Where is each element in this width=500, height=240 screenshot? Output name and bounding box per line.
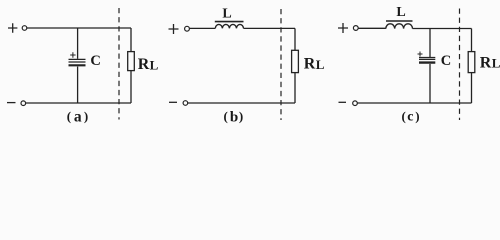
svg-text:): ) [415, 109, 419, 124]
svg-text:b: b [230, 110, 238, 126]
svg-text:C: C [441, 53, 451, 69]
svg-text:(: ( [224, 109, 228, 124]
svg-text:L: L [316, 57, 325, 72]
svg-text:c: c [407, 110, 413, 125]
svg-text:a: a [74, 109, 82, 126]
svg-text:C: C [90, 53, 100, 69]
svg-text:): ) [239, 109, 243, 124]
svg-text:R: R [304, 56, 316, 73]
svg-text:(: ( [402, 109, 406, 124]
svg-text:(: ( [67, 108, 71, 123]
svg-text:): ) [84, 108, 88, 123]
svg-text:R: R [480, 55, 492, 72]
svg-text:L: L [150, 57, 159, 72]
svg-text:L: L [492, 56, 500, 71]
svg-text:L: L [396, 5, 405, 20]
svg-text:R: R [138, 56, 150, 73]
svg-text:L: L [222, 7, 231, 22]
